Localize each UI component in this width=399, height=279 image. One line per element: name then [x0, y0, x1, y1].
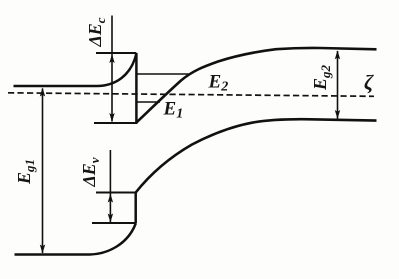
- svg-text:ζ: ζ: [364, 71, 374, 95]
